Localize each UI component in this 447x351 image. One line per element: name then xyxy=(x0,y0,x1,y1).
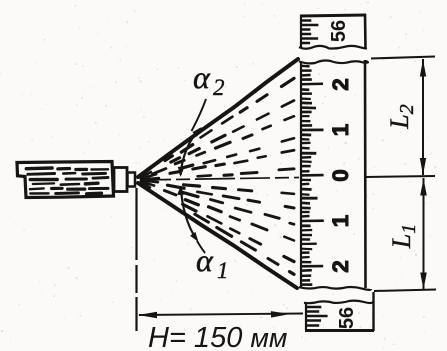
svg-text:α: α xyxy=(196,242,214,278)
svg-text:2: 2 xyxy=(328,78,353,91)
svg-text:56: 56 xyxy=(336,307,358,329)
svg-text:1: 1 xyxy=(217,258,229,283)
svg-text:2: 2 xyxy=(328,260,353,273)
svg-text:H= 150 мм: H= 150 мм xyxy=(148,322,287,351)
svg-text:α: α xyxy=(193,59,211,95)
svg-text:2: 2 xyxy=(213,75,225,100)
svg-text:56: 56 xyxy=(328,20,350,42)
svg-text:1: 1 xyxy=(328,215,353,228)
svg-text:1: 1 xyxy=(328,124,353,137)
svg-text:0: 0 xyxy=(328,169,353,182)
